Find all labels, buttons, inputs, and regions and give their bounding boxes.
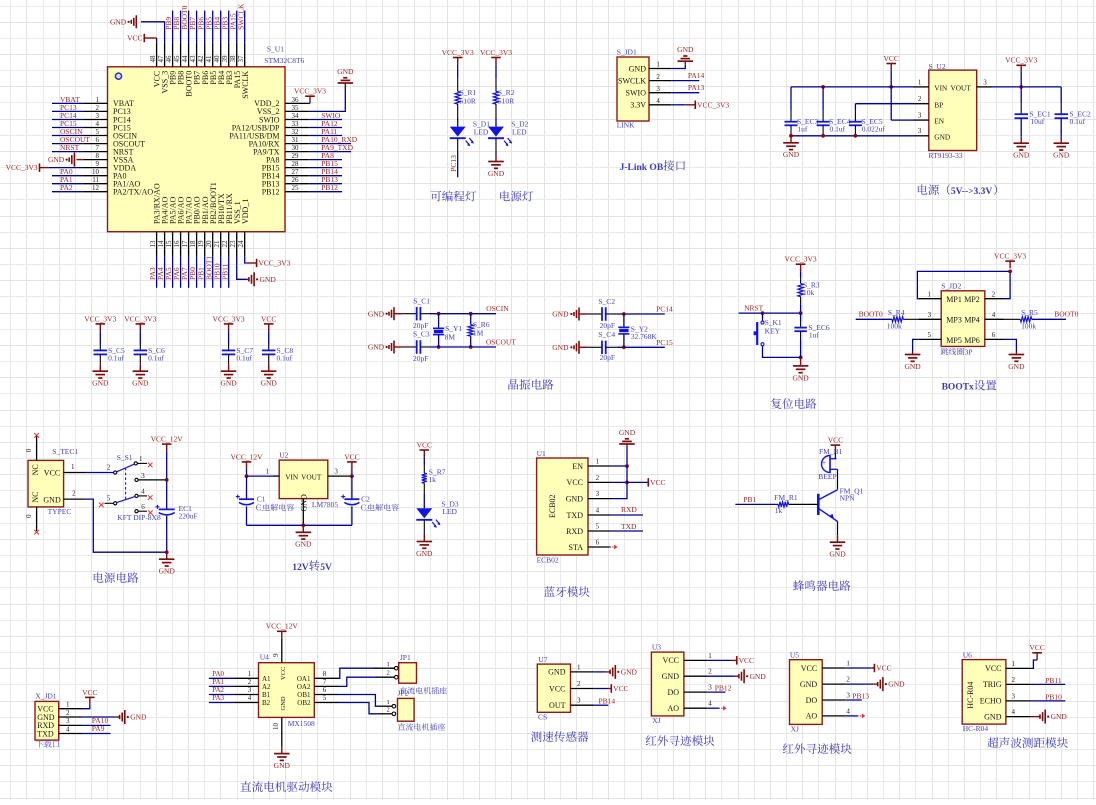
svg-text:VCC: VCC [650, 478, 665, 487]
svg-text:DO: DO [806, 696, 818, 705]
svg-text:2: 2 [846, 676, 850, 684]
module U5 body [790, 660, 823, 725]
wire [495, 117, 497, 127]
mcu pin 3 (PC14) [83, 119, 107, 121]
mcu pin 8 (VSSA) [83, 159, 107, 161]
module U6 pin 3 (ECHO) [1006, 700, 1031, 702]
svg-text:MP1: MP1 [946, 295, 962, 304]
module U3 body [651, 652, 684, 716]
svg-text:B2: B2 [262, 699, 271, 707]
mcu pin 19 (PB1/AO) [204, 232, 206, 257]
svg-text:31: 31 [292, 136, 300, 144]
svg-text:VCC: VCC [1029, 643, 1044, 652]
svg-text:VCC_3V3: VCC_3V3 [84, 314, 116, 323]
svg-text:VIN: VIN [285, 473, 299, 482]
svg-text:GND: GND [261, 379, 278, 388]
svg-text:38: 38 [229, 55, 237, 63]
label 直流电机插座 [398, 723, 445, 730]
svg-text:GND: GND [274, 761, 291, 770]
mcu pin 41 (PB5) [212, 43, 214, 67]
svg-text:5V-->3.3V: 5V-->3.3V [951, 187, 993, 197]
svg-text:9: 9 [272, 653, 280, 657]
wire net PA11 [309, 135, 342, 137]
wire net PA1 [52, 183, 83, 185]
wire net SWCLK [244, 11, 246, 43]
svg-text:GND: GND [159, 567, 176, 576]
svg-text:VCC: VCC [417, 440, 432, 449]
svg-text:2: 2 [577, 680, 581, 688]
svg-text:6: 6 [323, 686, 327, 694]
svg-text:PC14: PC14 [656, 305, 673, 314]
mcu pin 10 (PA0) [83, 175, 107, 177]
power VCC [1036, 653, 1038, 660]
jumper pins row 3 [918, 338, 941, 340]
wire [457, 117, 459, 127]
svg-text:J-Link OB: J-Link OB [620, 163, 664, 173]
wire net PB11 [228, 257, 230, 288]
mcu pin 39 (PB3) [228, 43, 230, 67]
svg-text:4: 4 [141, 487, 145, 495]
switch S_K1 KEY [762, 313, 764, 321]
wire net OSCIN [430, 313, 496, 315]
module U1 pin 4 (TXD) [588, 514, 611, 516]
svg-text:0.1uf: 0.1uf [148, 353, 164, 362]
sensor U7 pin 2 (VCC) [571, 688, 595, 690]
svg-text:0.1uf: 0.1uf [236, 353, 252, 362]
title 超声波测距模块 [987, 737, 1068, 748]
regulator pin 3 (GND) [913, 135, 929, 137]
svg-text:GND: GND [619, 428, 636, 437]
wire net PC14 [617, 313, 664, 315]
wire net PC13 [52, 110, 83, 112]
svg-text:29: 29 [292, 152, 300, 160]
title 可编程灯 [431, 191, 477, 202]
svg-text:BP: BP [934, 100, 943, 109]
wire net PC15 [52, 127, 83, 129]
svg-text:PA3: PA3 [212, 694, 224, 702]
power VCC at mcu pin 48 [156, 38, 158, 43]
module U3 pin 3 (DO) [684, 691, 707, 693]
svg-text:2: 2 [96, 104, 100, 112]
svg-text:2: 2 [386, 670, 389, 677]
led S_D3 LED [416, 508, 432, 518]
mcu pin 40 (PB4) [220, 43, 222, 67]
wire net PA4 [164, 257, 166, 288]
driver pin 2 (A2) [235, 685, 259, 687]
wire to switch [86, 472, 114, 474]
wire GND [845, 683, 874, 685]
svg-text:U7: U7 [538, 655, 547, 664]
wire net BOOT1 [212, 257, 214, 288]
svg-text:MP5: MP5 [946, 336, 962, 345]
connector X_JD1 pin 2 (GND) [59, 716, 82, 718]
svg-text:U3: U3 [652, 643, 661, 652]
driver pin 7 (OA2) [314, 685, 338, 687]
mcu pin 34 (SWIO) [285, 119, 309, 121]
wire net PB3 [228, 11, 230, 43]
wire net PB12 [707, 691, 725, 693]
svg-text:VCC_3V3: VCC_3V3 [785, 255, 817, 264]
wire net VBAT [52, 102, 83, 104]
svg-text:VCC: VCC [828, 436, 843, 445]
power VCC_3V3 above S_C6 [139, 324, 141, 331]
no-erc marker [857, 714, 865, 719]
svg-text:TXD: TXD [37, 729, 54, 738]
wire [495, 65, 497, 79]
mcu pin 1 (VBAT) [83, 102, 107, 104]
svg-text:4: 4 [992, 311, 996, 319]
power VCC input [890, 64, 892, 71]
svg-text:GND: GND [220, 379, 237, 388]
svg-text:GND: GND [1051, 712, 1068, 721]
wire [423, 494, 425, 508]
svg-text:2: 2 [248, 678, 252, 686]
wire to base [789, 503, 819, 505]
svg-text:A1: A1 [262, 675, 271, 683]
svg-text:RT9193-33: RT9193-33 [929, 151, 963, 160]
wire net PA3 [209, 702, 235, 704]
power VCC_12V [166, 444, 168, 451]
module U5 pin 4 (AO) [822, 715, 845, 717]
wire net PA2 [209, 694, 235, 696]
power VCC_12V [246, 462, 248, 469]
svg-text:LM7805: LM7805 [312, 500, 339, 509]
svg-text:3: 3 [846, 691, 850, 699]
svg-text:1: 1 [1012, 660, 1016, 668]
title 测速传感器 [531, 731, 588, 742]
module U3 pin 2 (GND) [684, 675, 707, 677]
power VCC_12V [281, 631, 283, 638]
svg-text:220uF: 220uF [179, 511, 198, 520]
svg-text:VCC: VCC [549, 684, 565, 693]
sensor U7 pin 1 (GND) [571, 671, 595, 673]
mcu pin 6 (OSCOUT) [83, 143, 107, 145]
svg-text:15: 15 [165, 240, 173, 248]
svg-text:U5: U5 [790, 650, 799, 659]
svg-text:18: 18 [189, 240, 197, 248]
connector X_JD1 body [35, 701, 59, 740]
svg-text:VCC_3V3: VCC_3V3 [697, 100, 729, 109]
svg-text:LED: LED [474, 128, 489, 137]
svg-text:35: 35 [292, 104, 300, 112]
wire MP6 to ground [1004, 339, 1017, 351]
wire to VCC_3V3 [671, 104, 686, 106]
ground below S_D3 [423, 535, 425, 542]
capacitor S_EC4 0.1uf [822, 87, 824, 111]
junction [469, 312, 473, 316]
mcu pin 29 (PA8) [285, 159, 309, 161]
wire net TXD [611, 530, 643, 532]
capacitor S_EC1 10uf [1020, 87, 1022, 103]
svg-text:43: 43 [189, 55, 197, 63]
svg-text:HC-R04: HC-R04 [966, 682, 975, 709]
mcu pin 22 (PB11/RX) [228, 232, 230, 257]
wire VCC [845, 667, 871, 669]
svg-text:12: 12 [92, 184, 100, 192]
svg-text:3: 3 [708, 684, 712, 692]
no-erc cross [148, 510, 153, 515]
transistor FM_Q1 NPN [817, 494, 820, 515]
svg-text:VCC_3V3: VCC_3V3 [480, 48, 512, 57]
wire net PA9_TXD [309, 151, 351, 153]
title 蓝牙模块 [544, 586, 590, 597]
svg-text:16: 16 [173, 240, 181, 248]
capacitor C1 electrolytic C_电解电容 [246, 476, 248, 499]
mcu pin 45 (PB8) [180, 43, 182, 67]
wire net PB10 [1031, 700, 1066, 702]
capacitor S_C7 0.1uf [228, 331, 230, 344]
mcu pin 13 (PA3/RX/AO) [156, 232, 158, 257]
wire MP5 to ground [913, 339, 919, 351]
svg-text:24: 24 [237, 240, 245, 248]
svg-text:BEEP: BEEP [818, 472, 836, 481]
regulator S_U2 body [929, 70, 977, 150]
wire GND rail [791, 135, 913, 137]
wire net PB1 [204, 257, 206, 288]
svg-text:STM32C8T6: STM32C8T6 [264, 56, 304, 65]
junction [622, 312, 626, 316]
resistor S_R3 10k [800, 271, 802, 278]
svg-text:28: 28 [292, 160, 300, 168]
svg-text:10: 10 [92, 168, 100, 176]
svg-text:4: 4 [656, 97, 660, 105]
svg-text:SWCLK: SWCLK [241, 71, 250, 99]
svg-text:1: 1 [266, 467, 270, 475]
wire net PA0 [209, 677, 235, 679]
title 电源电路 [94, 572, 139, 583]
svg-text:1: 1 [918, 78, 922, 86]
power VCC_3V3 output [1020, 65, 1022, 72]
svg-text:44: 44 [181, 55, 189, 63]
svg-text:S_C3: S_C3 [413, 329, 430, 338]
svg-text:7: 7 [323, 678, 327, 686]
svg-text:PA1: PA1 [212, 678, 224, 686]
svg-text:S_U1: S_U1 [267, 45, 284, 54]
ground at mcu pin 47 VSS_3 [141, 22, 165, 43]
driver pin 6 (OB1) [314, 694, 338, 696]
wire net PA15 [236, 11, 238, 43]
svg-text:1: 1 [596, 457, 600, 465]
svg-text:GND: GND [416, 549, 433, 558]
wire net PB5 [212, 11, 214, 43]
svg-text:1uf: 1uf [809, 330, 820, 339]
svg-text:XJ: XJ [652, 716, 660, 725]
wire net OSCIN [52, 135, 83, 137]
svg-text:2: 2 [72, 490, 76, 498]
svg-text:1: 1 [928, 291, 932, 299]
wire net PB10 [220, 257, 222, 288]
svg-text:3P: 3P [965, 348, 973, 357]
wire GND [594, 671, 606, 673]
svg-text:3: 3 [334, 467, 338, 475]
svg-text:GND: GND [1008, 362, 1025, 371]
crystal S_Y1 8M [438, 314, 440, 329]
resistor S_R6 1M [470, 314, 472, 325]
crystal S_Y2 32.768K [623, 314, 625, 327]
svg-text:BOOT0: BOOT0 [1054, 310, 1078, 319]
svg-text:1: 1 [71, 463, 75, 471]
ground below S_C8 [268, 364, 270, 371]
svg-text:5: 5 [107, 494, 111, 502]
module U6 pin 1 (VCC) [1006, 667, 1031, 669]
wire net PB4 [220, 11, 222, 43]
jumper pins row 2 [918, 318, 941, 320]
module U1 pin 5 (RXD) [588, 530, 611, 532]
wire net PB13 [845, 699, 862, 701]
svg-text:1: 1 [846, 659, 850, 667]
svg-text:GND: GND [337, 67, 354, 76]
junction [889, 85, 893, 89]
svg-text:MX1508: MX1508 [288, 719, 315, 728]
wire net PA13 [671, 92, 699, 94]
title 红外寻迹模块 [783, 743, 852, 754]
svg-text:DO: DO [667, 688, 679, 697]
mcu pin 16 (PA6/AO) [180, 232, 182, 257]
svg-text:MP3: MP3 [946, 316, 962, 325]
svg-text:VCC_3V3: VCC_3V3 [1005, 56, 1037, 65]
svg-text:NPN: NPN [840, 493, 856, 502]
svg-text:1M: 1M [473, 328, 484, 337]
power VCC [731, 659, 737, 661]
junction [165, 550, 169, 554]
svg-text:0.1uf: 0.1uf [830, 125, 846, 134]
svg-text:4: 4 [66, 725, 70, 733]
junction [821, 134, 825, 138]
switch contact 4 [135, 494, 138, 497]
svg-text:6: 6 [596, 538, 600, 546]
connector JP2 pin 1 [377, 705, 392, 707]
capacitor C2 electrolytic C_电解电容 [351, 476, 353, 499]
svg-text:17: 17 [181, 240, 189, 248]
mcu pin 48 (VCC) [156, 43, 158, 67]
ground at mcu pin 8 VSSA [76, 159, 83, 161]
svg-text:7: 7 [96, 144, 100, 152]
svg-text:32: 32 [292, 128, 300, 136]
ground right [606, 671, 610, 673]
mcu pin 14 (PA4/AO) [164, 232, 166, 257]
power VCC above S_R7 [423, 450, 425, 457]
svg-text:OB2: OB2 [297, 699, 311, 707]
svg-text:U4: U4 [260, 653, 269, 662]
wire net SWIO [309, 119, 342, 121]
svg-text:AO: AO [667, 704, 679, 713]
junction [437, 345, 441, 349]
wire AO stub [845, 715, 858, 717]
mcu pin 21 (PB10/TX) [220, 232, 222, 257]
regulator pin 3 (VOUT) [328, 475, 352, 477]
switch contact 6 [135, 510, 138, 513]
svg-text:GND: GND [43, 496, 61, 505]
svg-text:GND: GND [48, 155, 65, 164]
capacitor S_C5 0.1uf [99, 331, 101, 344]
driver pin 3 (B1) [235, 694, 259, 696]
svg-text:AO: AO [806, 712, 818, 721]
svg-text:TXD: TXD [567, 511, 584, 520]
capacitor S_C6 0.1uf [139, 331, 141, 344]
svg-text:GND: GND [1013, 151, 1030, 160]
svg-text:TRIG: TRIG [983, 680, 1002, 689]
wire to ground [671, 64, 685, 68]
no-erc cross [148, 495, 153, 500]
svg-text:SWCLK: SWCLK [236, 3, 245, 30]
wire net PC15 [617, 346, 664, 348]
mcu pin 9 (VDDA) [83, 167, 107, 169]
ground left of S_C1 [393, 307, 395, 320]
junction [1008, 270, 1012, 274]
mcu U1 pin1 marker circle [115, 73, 121, 79]
svg-text:LED: LED [442, 507, 457, 516]
connector S_JD1 pin 4 (3.3V) [649, 104, 671, 106]
svg-text:OA2: OA2 [297, 683, 311, 691]
svg-text:2: 2 [596, 474, 600, 482]
ground below S_EC3 [790, 136, 792, 143]
wire VCC to VIN and EN [890, 71, 892, 120]
ground below U2 [302, 525, 304, 532]
wire net PB9 [172, 11, 174, 43]
resistor S_R7 1k [423, 457, 425, 465]
svg-text:VCC: VCC [44, 469, 60, 478]
svg-text:4: 4 [708, 700, 712, 708]
connector S_JD1 pin 3 (SWIO) [649, 92, 671, 94]
wire VOUT [351, 469, 353, 476]
title 晶振电路 [508, 379, 553, 390]
svg-text:2: 2 [66, 709, 70, 717]
svg-text:VCC_3V3: VCC_3V3 [6, 163, 38, 172]
svg-text:S_R5: S_R5 [1021, 308, 1038, 317]
svg-text:ECHO: ECHO [980, 697, 1002, 706]
wire [763, 346, 801, 358]
ground below reset [800, 357, 802, 366]
module U6 body [962, 660, 1006, 725]
power VCC_3V3 at mcu pin 24 VDD_1 [245, 257, 247, 263]
mcu pin 31 (PA10/RX) [285, 143, 309, 145]
svg-text:JP2: JP2 [398, 689, 409, 698]
svg-text:GND: GND [629, 64, 647, 73]
svg-text:10k: 10k [803, 288, 815, 297]
svg-text:VCC: VCC [876, 664, 891, 673]
svg-text:VCC: VCC [261, 314, 276, 323]
svg-text:22: 22 [221, 240, 229, 248]
wire GND [82, 716, 116, 718]
svg-text:JP1: JP1 [400, 653, 411, 662]
svg-text:1: 1 [386, 699, 389, 706]
svg-text:1: 1 [708, 652, 712, 660]
svg-text:37: 37 [237, 55, 245, 63]
mcu pin 2 (PC13) [83, 110, 107, 112]
wire VCC [611, 481, 647, 483]
svg-text:LINK: LINK [617, 121, 635, 130]
svg-text:U6: U6 [963, 651, 972, 660]
wire net PA3 [156, 257, 158, 288]
svg-text:GND: GND [984, 712, 1002, 721]
svg-text:21: 21 [213, 240, 221, 248]
regulator pin 1 (VIN) [273, 475, 280, 477]
mcu pin 11 (PA1/AO) [83, 183, 107, 185]
capacitor S_C2 20pF [587, 313, 602, 315]
svg-text:2: 2 [708, 668, 712, 676]
wire net OSCOUT [52, 143, 83, 145]
power VCC [871, 667, 874, 669]
mcu pin 17 (PA7/AO) [188, 232, 190, 257]
svg-text:3: 3 [96, 112, 100, 120]
svg-text:2: 2 [918, 95, 922, 103]
capacitor S_C1 20pF [402, 313, 416, 315]
svg-text:3: 3 [918, 112, 922, 120]
svg-text:S_U2: S_U2 [929, 62, 946, 71]
capacitor EC1 220uF electrolytic [159, 508, 175, 510]
connector X_JD1 pin 4 (TXD) [59, 733, 82, 735]
connector JP1 body [399, 663, 417, 684]
